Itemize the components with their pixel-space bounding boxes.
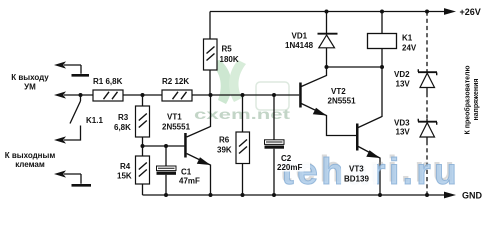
svg-text:15K: 15K (117, 172, 132, 181)
svg-text:R4: R4 (120, 162, 131, 171)
svg-text:К выходу: К выходу (11, 73, 49, 82)
svg-text:K1: K1 (402, 34, 413, 43)
svg-text:R5: R5 (222, 45, 233, 54)
svg-text:VT3: VT3 (349, 165, 364, 174)
svg-text:180K: 180K (220, 55, 239, 64)
svg-text:C2: C2 (281, 154, 292, 163)
svg-text:R6: R6 (219, 136, 230, 145)
svg-text:+26V: +26V (460, 7, 481, 17)
svg-text:47mF: 47mF (179, 177, 200, 186)
svg-text:VT1: VT1 (167, 113, 182, 122)
svg-text:24V: 24V (402, 44, 417, 53)
svg-text:39K: 39K (217, 146, 232, 155)
svg-text:13V: 13V (396, 128, 411, 137)
svg-text:VD1: VD1 (292, 32, 308, 41)
svg-text:6,8K: 6,8K (114, 123, 131, 132)
svg-text:напряжения: напряжения (473, 79, 480, 121)
svg-text:C1: C1 (181, 168, 192, 177)
svg-text:K1.1: K1.1 (86, 116, 103, 125)
svg-text:VT2: VT2 (331, 87, 346, 96)
svg-text:2N5551: 2N5551 (162, 123, 191, 132)
svg-text:220mF: 220mF (277, 163, 302, 172)
svg-text:BD139: BD139 (344, 175, 369, 184)
svg-text:1N4148: 1N4148 (285, 41, 314, 50)
svg-text:клемам: клемам (15, 160, 45, 169)
svg-text:2N5551: 2N5551 (328, 97, 357, 106)
svg-text:R1 6,8K: R1 6,8K (93, 77, 123, 86)
svg-text:VD2: VD2 (394, 70, 410, 79)
svg-text:К преобразователю: К преобразователю (464, 66, 472, 135)
svg-text:R3: R3 (118, 113, 129, 122)
svg-text:VD3: VD3 (394, 119, 410, 128)
svg-text:R2 12K: R2 12K (162, 77, 189, 86)
svg-text:13V: 13V (396, 80, 411, 89)
svg-text:GND: GND (462, 191, 483, 201)
svg-text:К выходным: К выходным (5, 151, 56, 160)
svg-text:УМ: УМ (24, 83, 36, 92)
